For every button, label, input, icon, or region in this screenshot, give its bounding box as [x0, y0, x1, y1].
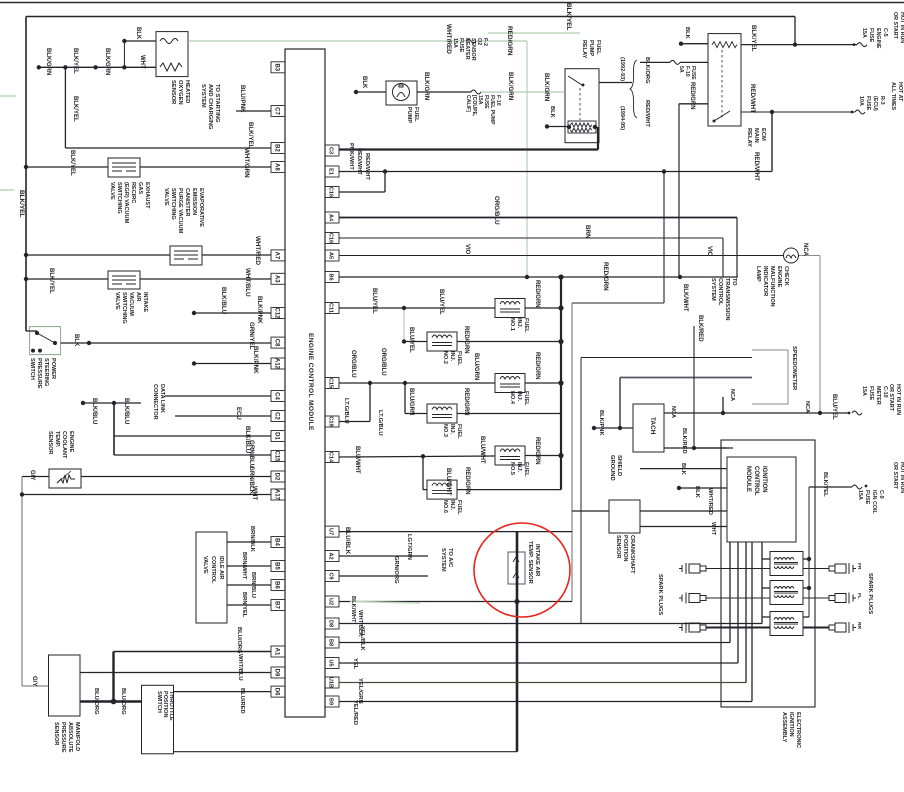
wire riser B8	[729, 542, 731, 643]
wire C3 PNK/WHT thick	[339, 148, 598, 150]
svg-text:GRN/ORG: GRN/ORG	[393, 556, 399, 584]
junction	[402, 339, 406, 343]
ECM Engine Control Module box	[285, 49, 325, 717]
svg-text:ORG/BLU: ORG/BLU	[350, 350, 356, 378]
wire BLK to fuel pump	[356, 91, 386, 93]
wire BLK stub to ICM	[679, 487, 727, 489]
junction	[662, 169, 666, 173]
svg-text:WHT/RED: WHT/RED	[254, 236, 261, 265]
svg-text:B9: B9	[328, 698, 334, 705]
svg-text:ASSEMBLY: ASSEMBLY	[781, 712, 787, 743]
svg-text:G/Y: G/Y	[29, 470, 35, 480]
EGR valve coil symbol	[112, 163, 136, 171]
junction	[383, 169, 387, 173]
coil 2 windings	[774, 587, 798, 598]
svg-text:ENGINE: ENGINE	[776, 266, 782, 288]
svg-text:SWITCHING: SWITCHING	[170, 188, 176, 220]
left spark plug	[679, 563, 706, 574]
wire BLK/RED vertical	[693, 326, 695, 448]
svg-text:BLK/YEL: BLK/YEL	[822, 472, 828, 497]
wire TACH BLK/RED to ICM	[664, 447, 727, 449]
ECM left pin A8	[271, 162, 285, 173]
svg-text:BLK/YEL: BLK/YEL	[565, 3, 572, 30]
svg-text:INDICATOR: INDICATOR	[762, 266, 768, 296]
wire top BLK/YEL feed	[26, 16, 795, 18]
svg-text:A5: A5	[328, 252, 334, 259]
wire EGR to A8	[140, 166, 271, 168]
svg-text:RED/GRN: RED/GRN	[506, 26, 513, 56]
speedometer bracket	[752, 350, 788, 404]
wire inj3 to bus	[457, 413, 561, 415]
ignition control module box	[727, 457, 796, 542]
wire fuse to corner	[476, 40, 527, 42]
ECM left pin B2	[271, 143, 285, 154]
ECM left pin B3	[271, 62, 285, 73]
svg-text:RELAY: RELAY	[746, 128, 752, 147]
svg-text:VALVE: VALVE	[114, 292, 120, 310]
junction	[63, 65, 67, 69]
IAT sensor element	[513, 557, 519, 578]
svg-text:INJ.: INJ.	[449, 424, 455, 435]
svg-text:BLK/YEL: BLK/YEL	[247, 122, 254, 149]
svg-text:NO.1: NO.1	[509, 318, 515, 331]
svg-text:C2: C2	[274, 412, 280, 420]
svg-text:FUEL: FUEL	[413, 107, 419, 122]
ECM left pin A1	[271, 646, 285, 657]
ECM main relay box	[708, 34, 741, 126]
ECT thermistor symbol	[57, 475, 75, 483]
injector no6 coil	[432, 483, 452, 494]
svg-text:BLU/PNK: BLU/PNK	[239, 85, 246, 113]
intake air temp sensor box	[508, 552, 525, 584]
svg-text:WHT/GRN: WHT/GRN	[243, 148, 250, 178]
svg-text:ENGINE: ENGINE	[68, 431, 74, 453]
svg-text:FUEL: FUEL	[456, 500, 462, 515]
svg-text:VACUUM: VACUUM	[128, 292, 134, 316]
svg-text:A8: A8	[274, 163, 280, 171]
wire RED/WHT to ECU fuse	[741, 111, 855, 113]
svg-text:BLU/YEL: BLU/YEL	[831, 394, 837, 420]
wire shield ground BLK	[640, 468, 727, 470]
svg-text:C-10: C-10	[882, 386, 888, 398]
svg-text:VALVE: VALVE	[202, 556, 208, 574]
ECM left pin A7	[271, 250, 285, 261]
svg-text:PRESSURE: PRESSURE	[60, 722, 66, 753]
svg-text:PURGE VACUUM: PURGE VACUUM	[177, 188, 183, 234]
wire IACV B7	[227, 604, 271, 606]
svg-text:SHIELD: SHIELD	[616, 455, 622, 476]
svg-text:FR: FR	[856, 563, 862, 570]
junction	[20, 492, 24, 496]
ignition coil 1	[770, 552, 803, 576]
junction	[192, 361, 196, 365]
wire coil1 feed	[803, 558, 809, 560]
svg-text:RED/GRN: RED/GRN	[602, 262, 609, 291]
wire riser U5	[737, 542, 739, 663]
ECM left pin B5	[271, 561, 285, 572]
wire C16 drop	[722, 238, 724, 277]
wire coil3 feed	[803, 616, 809, 618]
wire coil secondary right	[803, 568, 829, 570]
svg-text:B8: B8	[328, 639, 334, 646]
svg-text:INTAKE: INTAKE	[142, 292, 148, 313]
wire IACV B6	[227, 584, 271, 586]
svg-text:PUMP: PUMP	[588, 40, 594, 56]
svg-text:YEL: YEL	[352, 658, 358, 670]
svg-text:BLK: BLK	[135, 27, 141, 40]
fuse R-3 symbol	[855, 110, 865, 114]
svg-text:SWITCHING: SWITCHING	[116, 182, 122, 214]
wire coil secondary left	[706, 627, 770, 629]
fuse F-10 fuel pump symbol	[471, 90, 481, 94]
wire to inj6	[423, 489, 427, 491]
svg-text:HEATED: HEATED	[184, 80, 190, 103]
junction	[192, 311, 196, 315]
svg-text:CONTROL: CONTROL	[717, 278, 723, 306]
svg-text:A17: A17	[274, 489, 280, 501]
wire BLK/RED into ICM	[694, 447, 733, 449]
junction	[558, 305, 563, 310]
svg-text:BLK/RED: BLK/RED	[697, 315, 703, 342]
wire C15 ORG/BLU	[339, 382, 495, 384]
wire gray vertical to meter fuse	[819, 256, 821, 414]
wire coil3 primary	[762, 616, 770, 618]
wire G/Y vertical gray	[21, 477, 23, 687]
svg-text:DATA LINK: DATA LINK	[159, 384, 165, 413]
svg-text:TACH: TACH	[649, 417, 656, 435]
wire BLK/YEL coil feed olive	[808, 487, 810, 617]
intake air vacuum switching valve	[108, 271, 140, 289]
svg-text:BLK/PNK: BLK/PNK	[256, 296, 263, 324]
svg-text:HOT IN RUN: HOT IN RUN	[899, 462, 904, 493]
svg-text:BLK/WHT: BLK/WHT	[682, 284, 688, 312]
svg-text:ALL TIMES: ALL TIMES	[890, 82, 896, 111]
svg-text:RED/WHT: RED/WHT	[749, 84, 756, 113]
svg-text:ABSOLUTE: ABSOLUTE	[67, 722, 73, 753]
fuel injector no5 box	[495, 446, 525, 465]
wire speedo vertical	[580, 358, 582, 624]
injector no3 coil	[432, 407, 452, 418]
svg-text:C12: C12	[274, 308, 280, 320]
svg-text:IGNITION: IGNITION	[761, 466, 767, 493]
svg-text:RED/GRN: RED/GRN	[463, 326, 469, 354]
injector no4 coil	[500, 377, 520, 388]
svg-text:C14: C14	[328, 452, 334, 463]
svg-text:HOT IN RUN: HOT IN RUN	[895, 384, 901, 415]
ECM left pin C4	[271, 391, 285, 402]
svg-text:D2: D2	[274, 473, 280, 481]
EGR vacuum switching valve	[108, 158, 140, 177]
junction	[692, 446, 696, 450]
wire C19	[339, 421, 370, 423]
junction	[24, 253, 28, 257]
svg-text:WHT/RED: WHT/RED	[707, 488, 713, 515]
wire FP relay output	[599, 82, 632, 84]
svg-text:NO.6: NO.6	[442, 500, 448, 513]
svg-text:(1992-93): (1992-93)	[619, 57, 625, 81]
svg-text:BLU/WHT: BLU/WHT	[479, 436, 485, 464]
svg-text:IDLE AIR: IDLE AIR	[218, 556, 224, 580]
engine coolant temp sensor	[49, 469, 81, 488]
injector no5 coil	[500, 449, 520, 460]
svg-text:D8: D8	[328, 620, 334, 627]
junction	[122, 39, 126, 43]
svg-text:WHT: WHT	[251, 486, 258, 500]
fuse C-5 symbol	[857, 43, 867, 47]
wire B6 RED/GRN	[339, 276, 738, 278]
svg-text:LT.G/BLU: LT.G/BLU	[343, 398, 349, 424]
ECM left pin B7	[271, 600, 285, 611]
svg-text:COOLANT: COOLANT	[61, 431, 67, 459]
svg-text:C-9: C-9	[878, 490, 884, 499]
junction	[807, 586, 811, 590]
wire MAP to D9	[80, 672, 271, 674]
idle air control valve box	[196, 532, 227, 623]
ignition coil 3	[770, 612, 803, 636]
junction	[525, 275, 529, 279]
wire to inj3	[405, 413, 427, 415]
svg-text:BLK/YEL: BLK/YEL	[750, 25, 757, 52]
TACH box	[633, 404, 664, 452]
svg-text:INJ.: INJ.	[516, 462, 522, 473]
wire branch to C16	[384, 172, 386, 193]
junction	[679, 42, 683, 46]
svg-text:SPARK PLUGS: SPARK PLUGS	[657, 574, 663, 615]
wire fuel pump BLK/GRN	[417, 91, 471, 93]
svg-text:C16: C16	[328, 187, 334, 197]
svg-text:BLU/ORG: BLU/ORG	[93, 688, 99, 715]
svg-text:BLK/PNK: BLK/PNK	[252, 346, 259, 374]
svg-text:BLK/BLU: BLK/BLU	[91, 398, 97, 424]
FP relay switch	[568, 76, 582, 85]
junction	[403, 381, 407, 385]
wire to A1	[114, 651, 272, 653]
wire G/Y to MAP	[22, 685, 49, 687]
svg-text:FUSE: FUSE	[864, 490, 870, 505]
svg-text:LAMP: LAMP	[755, 266, 761, 282]
wire feed corner	[794, 17, 796, 45]
ECM right pin U1B	[325, 677, 339, 688]
svg-text:WHT/BLU: WHT/BLU	[237, 654, 243, 681]
O2 sensor resistor symbol	[160, 63, 182, 71]
svg-text:IGN COIL: IGN COIL	[871, 490, 877, 514]
junction	[402, 306, 406, 310]
wire A4 ORG/BLU thick	[339, 217, 737, 219]
junction	[122, 65, 126, 69]
ECM right pin C15	[325, 378, 339, 389]
wire TPS bottom to IAT line	[174, 751, 518, 753]
svg-text:BLK: BLK	[361, 76, 367, 89]
fuse C-10 symbol	[852, 411, 862, 415]
svg-text:VIO: VIO	[464, 244, 470, 255]
wire coil2 feed	[803, 587, 809, 589]
svg-text:C16: C16	[328, 233, 334, 243]
ECM left pin D9	[271, 667, 285, 678]
svg-text:WHT/BLU: WHT/BLU	[244, 268, 251, 297]
svg-text:CHECK: CHECK	[783, 266, 789, 286]
svg-text:NO.5: NO.5	[509, 462, 515, 475]
svg-text:B6: B6	[274, 581, 280, 589]
svg-text:OXYGEN: OXYGEN	[177, 80, 183, 105]
ECM right pin C19	[325, 416, 339, 427]
svg-text:BLK/YEL: BLK/YEL	[18, 190, 25, 217]
svg-text:BLK/YEL: BLK/YEL	[72, 48, 78, 74]
left spark plug	[679, 593, 706, 604]
svg-text:VALVE: VALVE	[109, 182, 115, 200]
svg-text:BLK/GRN: BLK/GRN	[423, 72, 430, 101]
wire gray vertical long	[571, 303, 573, 602]
wire IACV B5	[227, 565, 271, 567]
svg-text:SWITCHING: SWITCHING	[121, 292, 127, 324]
svg-text:GROUND: GROUND	[609, 455, 615, 481]
svg-text:LT.G/BLU: LT.G/BLU	[377, 410, 383, 436]
svg-text:BLK/BLU: BLK/BLU	[123, 398, 129, 424]
ECM relay dashed link	[721, 50, 723, 118]
svg-text:BLU/RED: BLU/RED	[239, 688, 245, 714]
svg-text:RECIRC: RECIRC	[130, 182, 136, 203]
wire to F-10 fuse	[640, 61, 670, 63]
svg-text:BLK/GRN: BLK/GRN	[104, 48, 110, 75]
wire C16 BRN	[339, 237, 723, 239]
junction	[368, 381, 372, 385]
svg-text:VIO: VIO	[706, 246, 712, 257]
wire C16 branch	[339, 191, 385, 193]
junction	[618, 426, 622, 430]
svg-text:SYSTEM: SYSTEM	[710, 278, 716, 301]
wire inj2 to bus	[457, 341, 561, 343]
svg-text:C15: C15	[274, 451, 280, 463]
svg-text:OR START: OR START	[888, 384, 894, 412]
svg-text:AIR: AIR	[135, 292, 141, 302]
wire A4 drop	[736, 218, 738, 278]
wire to speedometer lower gray	[620, 377, 752, 379]
svg-text:WHT: WHT	[710, 522, 716, 536]
junction	[793, 42, 797, 46]
svg-text:WHT: WHT	[139, 55, 145, 69]
ECM right pin A5	[325, 250, 339, 261]
svg-text:BLK/BLU: BLK/BLU	[220, 287, 227, 315]
wire A2 LT GRN	[339, 555, 428, 557]
left spark plug	[679, 622, 706, 633]
junction	[93, 65, 97, 69]
svg-text:RED/GRN: RED/GRN	[534, 280, 540, 308]
fuel pump relay box	[565, 69, 599, 143]
wire riser U1B	[745, 542, 747, 683]
ECM right pin U7	[325, 526, 339, 537]
FP relay coil	[568, 121, 596, 133]
svg-text:PNK/WHT: PNK/WHT	[348, 143, 354, 170]
wire E1 RED/WHT	[339, 171, 772, 173]
ECM right pin B8	[325, 637, 339, 648]
coil 1 windings	[774, 558, 798, 569]
svg-text:SYSTEM: SYSTEM	[200, 84, 206, 108]
ECM right pin C16	[325, 187, 339, 198]
wire junction BLK	[123, 41, 125, 67]
wire inj6 to bus	[457, 489, 561, 491]
svg-text:BLK: BLK	[549, 106, 555, 119]
fuel injector no1 box	[495, 299, 525, 318]
wire pair link	[404, 383, 406, 414]
svg-text:BLK: BLK	[73, 334, 79, 347]
ECM left pin C2	[271, 411, 285, 422]
svg-text:SENSOR: SENSOR	[53, 722, 59, 745]
ECM left pin D6	[271, 686, 285, 697]
svg-text:INJ.: INJ.	[449, 351, 455, 362]
svg-text:ORG/BLU: ORG/BLU	[493, 196, 500, 225]
wire CKP WHT/RED	[640, 510, 727, 512]
svg-text:(EGR) VACUUM: (EGR) VACUUM	[123, 182, 129, 224]
wire CKP WHT	[640, 526, 727, 528]
svg-text:BLK/GRN: BLK/GRN	[507, 72, 514, 101]
svg-text:CALIF]: CALIF]	[465, 95, 471, 112]
ECM left pin A3	[271, 273, 285, 284]
wire A5 VIO to MIL lamp	[339, 255, 783, 257]
svg-text:BRN/WHT: BRN/WHT	[241, 552, 247, 580]
junction	[112, 401, 116, 405]
svg-text:STEERING: STEERING	[43, 358, 49, 386]
svg-text:FUEL: FUEL	[523, 462, 529, 477]
wire valve to A3	[140, 278, 271, 280]
svg-text:RED/WHT: RED/WHT	[356, 148, 362, 175]
svg-text:C15: C15	[328, 378, 334, 388]
wire inj5 to bus	[525, 455, 561, 457]
svg-text:AND CHARGING: AND CHARGING	[207, 84, 213, 130]
wire TACH NCA to meter fuse	[664, 412, 850, 414]
ECM left pin A12	[271, 358, 285, 369]
svg-text:BLU/WHT: BLU/WHT	[445, 468, 451, 496]
fuse F-2 symbol	[466, 39, 476, 43]
svg-text:YEL/RED: YEL/RED	[352, 700, 358, 725]
svg-text:BLU/WHT: BLU/WHT	[354, 446, 360, 474]
svg-text:NCA: NCA	[804, 401, 810, 413]
svg-text:ORG/BLU: ORG/BLU	[380, 348, 386, 376]
wire U5 YEL	[339, 662, 738, 664]
svg-text:BLK: BLK	[694, 486, 700, 499]
ECM right pin A4	[325, 212, 339, 223]
wire RED/GRN vertical	[678, 104, 680, 277]
wire purge to A7	[202, 254, 271, 256]
wire coil2 primary	[762, 587, 770, 589]
svg-text:HOT AT: HOT AT	[897, 82, 903, 102]
svg-text:G/Y: G/Y	[31, 676, 37, 686]
svg-text:RED/GRN: RED/GRN	[534, 352, 540, 380]
junction	[24, 165, 28, 169]
svg-text:BLU/ORG: BLU/ORG	[120, 688, 126, 715]
svg-text:SENSOR: SENSOR	[47, 431, 53, 454]
svg-text:FL: FL	[856, 593, 862, 599]
svg-text:A2: A2	[328, 552, 334, 559]
junction	[818, 411, 822, 415]
wire coil secondary right	[803, 627, 829, 629]
junction	[558, 339, 563, 344]
wire C7 BLU/PNK	[236, 110, 271, 112]
wire BLK/PNK to TACH	[594, 427, 633, 429]
wire BLU/ORG vertical thick	[112, 652, 114, 702]
svg-text:TEMP. SENSOR: TEMP. SENSOR	[527, 541, 533, 585]
svg-text:BRN: BRN	[584, 225, 591, 239]
svg-text:EMISSION: EMISSION	[191, 188, 197, 215]
svg-text:(ECU): (ECU)	[872, 96, 878, 111]
svg-text:GAS: GAS	[137, 182, 143, 194]
wire to A17	[22, 494, 271, 496]
year split brace	[630, 60, 637, 118]
wire B8 YEL/BLK	[339, 642, 730, 644]
ECM relay switch	[714, 111, 730, 121]
wire DLC to C4	[165, 395, 271, 397]
svg-text:BLK/WHT: BLK/WHT	[350, 596, 356, 623]
svg-text:B3: B3	[274, 63, 280, 71]
wire U2 BLK/WHT	[339, 601, 572, 603]
